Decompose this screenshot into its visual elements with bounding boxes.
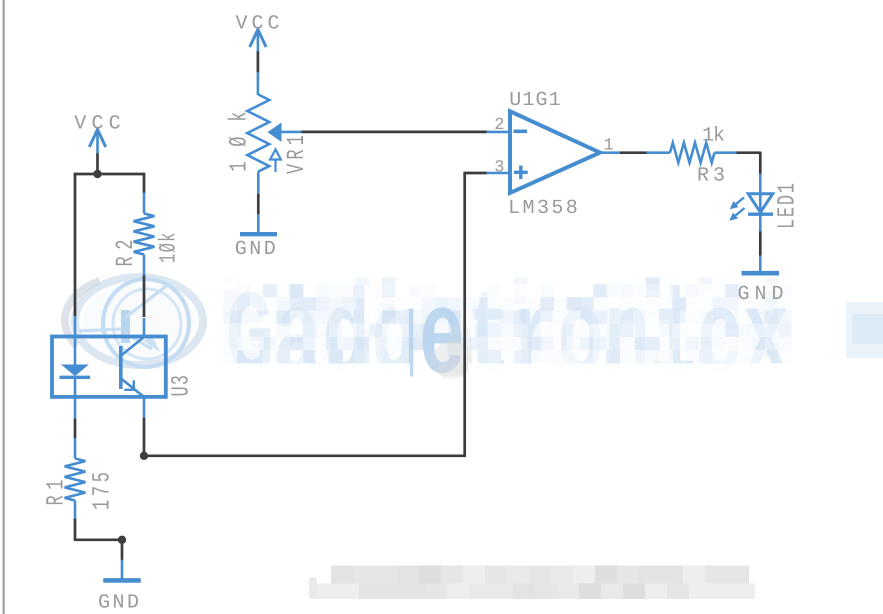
svg-text:GND: GND [98,592,139,614]
svg-text:175: 175 [90,472,118,510]
svg-text:VCC: VCC [236,13,280,36]
svg-text:U1G1: U1G1 [509,89,560,112]
svg-text:1: 1 [603,137,613,156]
svg-text:2: 2 [494,116,504,135]
svg-text:1Øk: 1Øk [227,112,255,172]
svg-text:U3: U3 [169,375,197,397]
svg-text:VR1: VR1 [284,135,312,174]
svg-text:3: 3 [494,159,504,178]
svg-text:1k: 1k [702,125,725,148]
svg-text:GND: GND [235,238,276,261]
svg-text:LED1: LED1 [775,183,803,229]
svg-text:1Øk: 1Øk [155,233,182,264]
svg-text:LM358: LM358 [508,197,578,220]
svg-text:GND: GND [738,283,784,306]
svg-text:VCC: VCC [74,113,120,136]
